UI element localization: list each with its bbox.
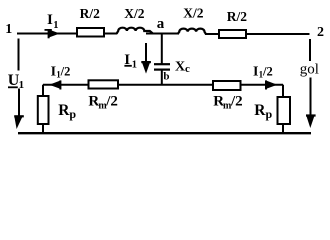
svg-text:gol: gol — [300, 61, 319, 77]
svg-text:1: 1 — [132, 60, 137, 71]
middle wire: left corner through node b to right corner — [43, 84, 283, 86]
svg-text:/2: /2 — [105, 94, 118, 110]
inductor X/2 right — [178, 29, 207, 35]
svg-text:R/2: R/2 — [80, 6, 101, 21]
wire: R/2 left to inductor X/2 left — [104, 33, 117, 35]
resistor R/2 left body — [77, 28, 104, 37]
bottom rail — [18, 132, 311, 134]
inductor X/2 left — [117, 28, 153, 34]
svg-text:X: X — [175, 60, 185, 75]
svg-text:I: I — [47, 12, 53, 28]
wire: node a down to capacitor Xc — [161, 34, 163, 64]
svg-text:/2: /2 — [262, 64, 273, 78]
wire: X/2 right to resistor R/2 right — [205, 33, 219, 35]
svg-text:c: c — [185, 63, 190, 75]
svg-text:p: p — [69, 107, 76, 121]
resistor Rm/2 left body — [89, 80, 119, 88]
wire: Rp left to bottom rail — [42, 124, 44, 134]
underline of label U1 — [8, 86, 18, 88]
svg-text:b: b — [163, 71, 169, 83]
wire: left corner down to Rp left — [42, 85, 44, 97]
svg-text:X/2: X/2 — [183, 5, 204, 20]
wire: X/2 left through node a to X/2 right — [146, 33, 178, 35]
capacitor Xc bottom plate — [154, 68, 170, 70]
svg-text:R: R — [58, 102, 70, 119]
svg-text:R/2: R/2 — [227, 9, 248, 24]
wire: terminal 1 to resistor R/2 left — [17, 33, 77, 35]
wire: Rp right to bottom rail — [282, 124, 284, 134]
current arrow I1 head (on top wire, points right) — [50, 30, 60, 38]
svg-text:a: a — [157, 16, 165, 32]
current arrow I1/2 right head (points right) — [267, 81, 277, 89]
current arrow I1 shunt head (points down) — [142, 63, 150, 74]
svg-text:1: 1 — [5, 22, 12, 37]
resistor R/2 right body — [219, 30, 246, 38]
voltage arrow U1 shaft — [18, 89, 20, 120]
terminal 1 stub down — [18, 39, 20, 71]
resistor Rp left body — [38, 96, 49, 124]
current arrow I1 shunt shaft — [145, 43, 147, 64]
svg-text:1: 1 — [53, 20, 58, 31]
resistor Rm/2 right body — [213, 81, 241, 90]
svg-text:/2: /2 — [230, 94, 243, 110]
svg-text:R: R — [254, 102, 266, 119]
underline of label I1 top — [45, 29, 52, 31]
underline of label I1 shunt — [124, 65, 131, 67]
svg-text:p: p — [266, 107, 273, 121]
voltage arrow gol shaft — [310, 78, 312, 119]
svg-text:I: I — [124, 52, 130, 68]
capacitor Xc top plate — [154, 63, 170, 65]
svg-text:/2: /2 — [60, 64, 71, 78]
wire: right corner down to Rp right — [282, 85, 284, 98]
svg-text:2: 2 — [317, 25, 324, 40]
current arrow I1/2 left head (points left) — [49, 81, 59, 89]
wire: R/2 right to terminal 2 — [246, 33, 310, 35]
voltage arrow gol head (points down) — [307, 116, 315, 128]
terminal 2 stub down — [309, 39, 311, 61]
resistor Rp right body — [278, 97, 291, 124]
voltage arrow U1 head (points down) — [14, 117, 22, 129]
svg-text:X/2: X/2 — [124, 6, 145, 21]
wire: capacitor Xc to node b — [161, 71, 163, 86]
svg-text:1: 1 — [19, 79, 25, 91]
